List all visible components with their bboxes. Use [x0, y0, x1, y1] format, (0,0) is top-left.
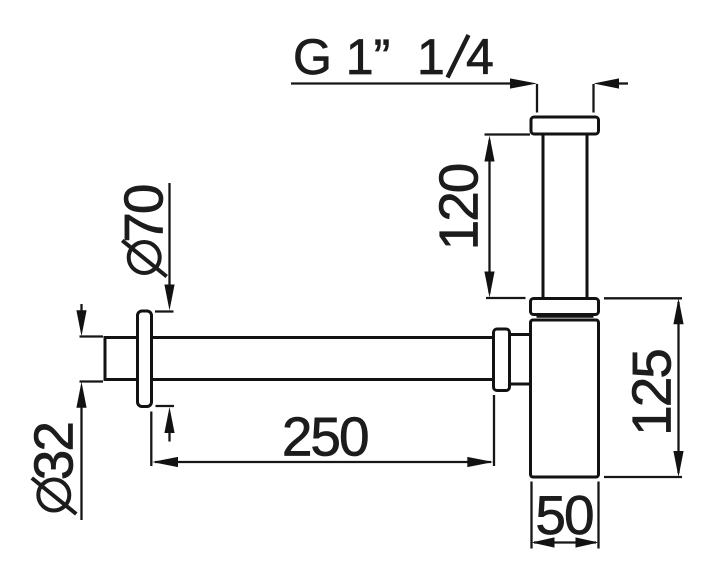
horizontal outlet pipe	[105, 336, 494, 381]
dim 70 extension top	[155, 310, 174, 312]
dim 50 extension right	[597, 482, 599, 549]
label 125	[621, 350, 683, 436]
dim 120 line	[488, 140, 490, 293]
wall flange rosette	[138, 311, 152, 407]
dim 70 extension bottom	[156, 405, 175, 407]
dim 32 extension bottom	[80, 380, 104, 382]
svg-text:1: 1	[417, 29, 445, 85]
vertical inlet pipe	[543, 134, 587, 299]
arrow 32 up	[76, 382, 86, 408]
arrow 50 right	[576, 537, 599, 547]
svg-text:70: 70	[113, 185, 175, 243]
label diameter 32	[22, 423, 84, 514]
bottle cap	[531, 299, 599, 315]
arrow 120 top	[484, 136, 494, 162]
top thread cap	[531, 117, 599, 134]
dim 125 extension top	[604, 297, 682, 299]
compression nut	[494, 329, 510, 391]
dim 250 line	[155, 461, 491, 463]
dim 120 extension bottom	[486, 297, 526, 299]
svg-text:50: 50	[535, 484, 593, 546]
arrow 120 bottom	[484, 272, 494, 298]
arrow G left	[510, 78, 537, 88]
arrow 70 down	[164, 285, 174, 311]
nut-to-body connector	[510, 335, 531, 385]
svg-text:32: 32	[22, 423, 84, 480]
label 120	[428, 164, 490, 250]
arrow 250 left	[152, 457, 178, 467]
svg-text:125: 125	[621, 350, 683, 436]
label diameter 70	[113, 185, 175, 276]
bottle body	[531, 320, 599, 477]
arrow 32 down	[76, 310, 86, 336]
dim G leader line	[291, 82, 522, 84]
arrow 70 up	[164, 407, 174, 433]
dim 32 stub top	[80, 304, 82, 313]
dim 250 extension right	[493, 395, 495, 466]
dim 120 extension top	[485, 133, 531, 135]
dim 125 extension bottom	[604, 476, 682, 478]
dim 50 line	[534, 541, 596, 543]
arrow 125 bottom	[673, 451, 683, 477]
arrow G right	[594, 78, 620, 88]
dim 32 line lower	[80, 405, 82, 520]
svg-text:250: 250	[282, 406, 368, 468]
dim 50 extension left	[530, 482, 532, 549]
arrow 125 top	[673, 298, 683, 324]
dim 70 tail lower	[168, 430, 170, 442]
svg-text:G 1”: G 1”	[293, 29, 390, 85]
dim G tail right	[612, 82, 628, 84]
dim 125 line	[677, 302, 679, 473]
arrow 50 left	[532, 537, 555, 547]
dim G extension right	[592, 84, 594, 113]
dim 250 extension left	[150, 412, 152, 467]
dim 32 extension top	[80, 335, 104, 337]
dim 70 line upper	[168, 183, 170, 290]
cap lip	[537, 316, 594, 318]
svg-text:120: 120	[428, 164, 490, 250]
svg-text:4: 4	[466, 29, 494, 85]
dim G extension left	[536, 84, 538, 113]
arrow 250 right	[467, 457, 493, 467]
